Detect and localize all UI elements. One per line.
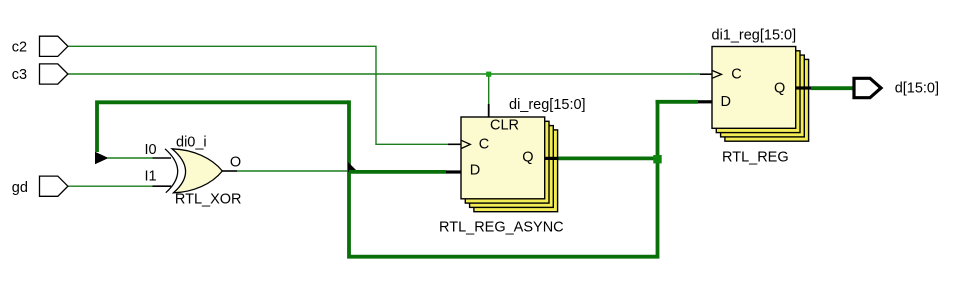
input port gd (40, 176, 68, 196)
pin stub D of di_reg (446, 170, 462, 173)
wire bus to D of di1_reg (656, 100, 698, 104)
clock triangle of di1_reg (712, 70, 722, 78)
svg-text:RTL_REG: RTL_REG (722, 150, 789, 166)
wire O net thin to junction J1 (237, 170, 349, 172)
wire feedback bus loop (thick): down-left into XOR I0 arrow (97, 102, 349, 152)
svg-text:RTL_XOR: RTL_XOR (175, 192, 242, 208)
register di_reg[15:0] stack (461, 117, 558, 212)
svg-text:C: C (731, 66, 741, 82)
arrowhead into XOR I0 (bit select from bus) (95, 152, 109, 164)
svg-text:Q: Q (522, 150, 533, 166)
pin stub CLR of di_reg (488, 104, 490, 118)
wire bus Q of di1_reg to output port (811, 86, 854, 90)
wire c2 net: from port c2 to C pin of di_reg (68, 46, 448, 144)
svg-text:I1: I1 (145, 168, 157, 184)
pin stub I0 of XOR (153, 157, 172, 159)
pin stub D of di1_reg (698, 100, 713, 103)
svg-text:Q: Q (774, 81, 785, 97)
junction on c3 net (486, 72, 491, 77)
junction J1 merge arrow (348, 162, 358, 172)
wire bus vertical at x=349 down to bottom loop and up at x=657.5 (349, 100, 658, 257)
xor gate di0_i body (172, 149, 222, 193)
svg-text:di0_i: di0_i (176, 134, 207, 150)
pin stub O of XOR (222, 170, 237, 172)
svg-text:c2: c2 (12, 39, 27, 55)
pin stub Q of di_reg (544, 157, 559, 160)
junction J2 square (653, 155, 661, 163)
svg-text:CLR: CLR (490, 118, 519, 134)
pin stub I1 of XOR (153, 185, 172, 187)
clock triangle of di_reg (461, 140, 470, 148)
register di1_reg[15:0] stack (712, 47, 809, 142)
svg-text:RTL_REG_ASYNC: RTL_REG_ASYNC (439, 220, 564, 236)
svg-text:O: O (230, 155, 241, 171)
wire bus Q of di_reg to junction J2 (559, 156, 658, 160)
svg-text:c3: c3 (12, 67, 27, 83)
pin stub Q of di1_reg (795, 86, 811, 89)
svg-text:C: C (479, 136, 489, 152)
input port c3 (40, 64, 68, 84)
wire bus to D of di_reg (349, 170, 446, 174)
svg-text:gd: gd (12, 180, 28, 196)
xor gate outer input arc (165, 149, 178, 193)
output port d[15:0] (854, 78, 881, 97)
svg-text:di1_reg[15:0]: di1_reg[15:0] (712, 28, 797, 44)
svg-text:D: D (470, 163, 480, 179)
pin stub C of di_reg (448, 143, 462, 145)
wire gd net: from port gd to I1 of XOR (68, 185, 153, 187)
wire I0 net thin (107, 157, 153, 159)
svg-text:d[15:0]: d[15:0] (895, 80, 939, 96)
pin stub C of di1_reg (700, 73, 713, 75)
input port c2 (40, 36, 68, 56)
svg-text:di_reg[15:0]: di_reg[15:0] (509, 97, 586, 113)
svg-text:I0: I0 (145, 142, 157, 158)
svg-text:D: D (721, 94, 731, 110)
wire c3 net: from port c3 to C pin of di1_reg (68, 73, 700, 75)
wire c3 branch down to CLR of di_reg (488, 74, 490, 104)
